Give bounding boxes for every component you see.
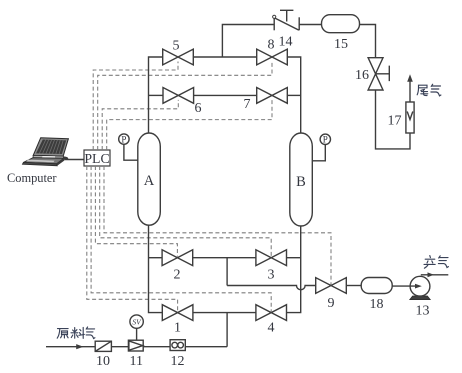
control line PLC to valve 8 bbox=[98, 62, 272, 151]
svg-text:Computer: Computer bbox=[7, 171, 57, 185]
pipe: valve 16 down and to rotameter 17 bbox=[376, 90, 411, 149]
buffer tank 18 bbox=[361, 278, 392, 294]
svg-text:10: 10 bbox=[96, 354, 110, 369]
filter 10 bbox=[95, 341, 111, 351]
pipe: product drop from row 2-3 bbox=[226, 258, 228, 286]
valve 8 bbox=[257, 49, 288, 65]
pipe: valve 5 to valve 8 with tee bbox=[193, 56, 256, 58]
control line PLC to valve 5 bbox=[93, 62, 178, 151]
svg-text:PLC: PLC bbox=[84, 151, 109, 166]
flow meter 12 bbox=[170, 340, 185, 351]
pipe: product line with hop over pipe B bbox=[227, 286, 316, 290]
svg-text:1: 1 bbox=[174, 321, 181, 336]
气 bbox=[438, 256, 448, 268]
tail gas arrow bbox=[407, 74, 413, 102]
料 bbox=[71, 327, 84, 338]
solenoid valve 11 bbox=[128, 340, 143, 351]
pipe: meter 12 to feed riser bbox=[185, 346, 227, 348]
svg-text:9: 9 bbox=[328, 296, 335, 311]
svg-text:P: P bbox=[121, 134, 126, 144]
pipe: filter 10 to valve 11 bbox=[111, 346, 128, 348]
label 产气 (product gas) bbox=[424, 256, 448, 269]
svg-text:P: P bbox=[323, 135, 328, 145]
svg-text:15: 15 bbox=[334, 37, 348, 52]
svg-text:A: A bbox=[144, 173, 155, 189]
control line PLC to valve 4 bbox=[91, 166, 271, 312]
svg-text:5: 5 bbox=[173, 39, 180, 54]
pressure gauge PA bbox=[119, 134, 138, 160]
PLC controller box bbox=[84, 150, 110, 166]
pipe: valve 11 to meter 12 bbox=[143, 346, 170, 348]
rotameter 17 bbox=[406, 102, 414, 133]
valve 3 bbox=[256, 250, 287, 266]
pipe: valve 1 to valve 4 with feed tee bbox=[193, 312, 256, 314]
valve 16 (vertical) bbox=[368, 58, 383, 90]
pipe: riser to top line bbox=[222, 25, 274, 58]
pipe: valve 6 to valve 7 bbox=[194, 94, 257, 96]
svg-text:18: 18 bbox=[370, 297, 384, 312]
feed line with arrow bbox=[46, 344, 95, 349]
svg-text:12: 12 bbox=[171, 354, 185, 369]
svg-text:6: 6 bbox=[195, 101, 202, 116]
pipe: valve 7 to pipe B bbox=[287, 94, 300, 96]
pump 13 bbox=[410, 276, 431, 299]
svg-text:B: B bbox=[296, 174, 306, 190]
control line PLC to valve 3 bbox=[100, 166, 272, 257]
气 bbox=[431, 84, 441, 96]
vessel A bbox=[138, 133, 161, 225]
pipe: vessel A top riser and corner to valve 5 bbox=[149, 57, 163, 133]
气 bbox=[86, 327, 95, 339]
pipe: row 2-3 left segment bbox=[149, 257, 163, 259]
valve 14 (switch style) bbox=[273, 10, 300, 30]
valve 4 bbox=[256, 305, 287, 321]
valve 9 bbox=[316, 278, 347, 294]
svg-text:3: 3 bbox=[268, 268, 275, 283]
pipe: valve 9 to buffer 18 bbox=[346, 285, 361, 287]
pipe: row 6-7 left segment bbox=[149, 94, 164, 96]
computer (laptop icon) bbox=[22, 138, 68, 166]
svg-text:17: 17 bbox=[388, 114, 402, 129]
control line PLC to valve 2 bbox=[95, 166, 177, 257]
pipe: vessel A bottom riser to valve 1 row bbox=[149, 225, 163, 312]
原 bbox=[57, 329, 68, 339]
product outlet arrow bbox=[421, 272, 449, 277]
wire computer to PLC bbox=[65, 159, 85, 161]
valve 2 bbox=[162, 250, 193, 266]
尾 bbox=[417, 85, 428, 95]
pressure gauge PB bbox=[312, 134, 330, 161]
valve 7 bbox=[257, 88, 288, 104]
pipe: valve 2 to valve 3 with tee bbox=[193, 257, 256, 259]
svg-text:SV: SV bbox=[132, 317, 142, 326]
pipe: buffer 18 to pump with arrow into pump center bbox=[392, 284, 422, 289]
svg-text:16: 16 bbox=[355, 68, 369, 83]
pipe: valve 3 to pipe B bbox=[287, 257, 301, 259]
control line PLC to valve 6 bbox=[102, 100, 178, 150]
buffer tank 15 bbox=[322, 15, 360, 33]
svg-text:8: 8 bbox=[268, 38, 275, 53]
valve 5 bbox=[163, 49, 194, 65]
svg-text:13: 13 bbox=[416, 304, 430, 319]
svg-text:11: 11 bbox=[130, 354, 143, 369]
svg-text:2: 2 bbox=[174, 268, 181, 283]
valve 1 bbox=[162, 305, 193, 321]
svg-text:7: 7 bbox=[244, 97, 251, 112]
pipe: feed riser bbox=[226, 313, 228, 347]
control line PLC to valve 7 bbox=[107, 100, 272, 150]
svg-text:14: 14 bbox=[279, 35, 293, 50]
control line PLC to valve 1 bbox=[87, 166, 178, 312]
pipe: valve 14 to buffer 15 bbox=[299, 24, 321, 26]
vessel B bbox=[290, 133, 313, 226]
valve 16 handle bbox=[376, 66, 390, 82]
label 尾气 (tail gas) bbox=[417, 84, 441, 96]
control line PLC to valve 9 bbox=[104, 166, 331, 285]
pipe: valve 8 to vessel B top riser bbox=[287, 57, 300, 133]
solenoid pilot SV bbox=[130, 315, 143, 340]
svg-text:4: 4 bbox=[268, 321, 275, 336]
pipe: vessel B bottom riser to valve 4 bbox=[287, 226, 301, 313]
产 bbox=[424, 256, 435, 269]
label 原料气 (feed gas) bbox=[57, 327, 95, 339]
valve 6 bbox=[163, 88, 194, 104]
pipe: buffer 15 to valve 16 bbox=[360, 25, 376, 58]
